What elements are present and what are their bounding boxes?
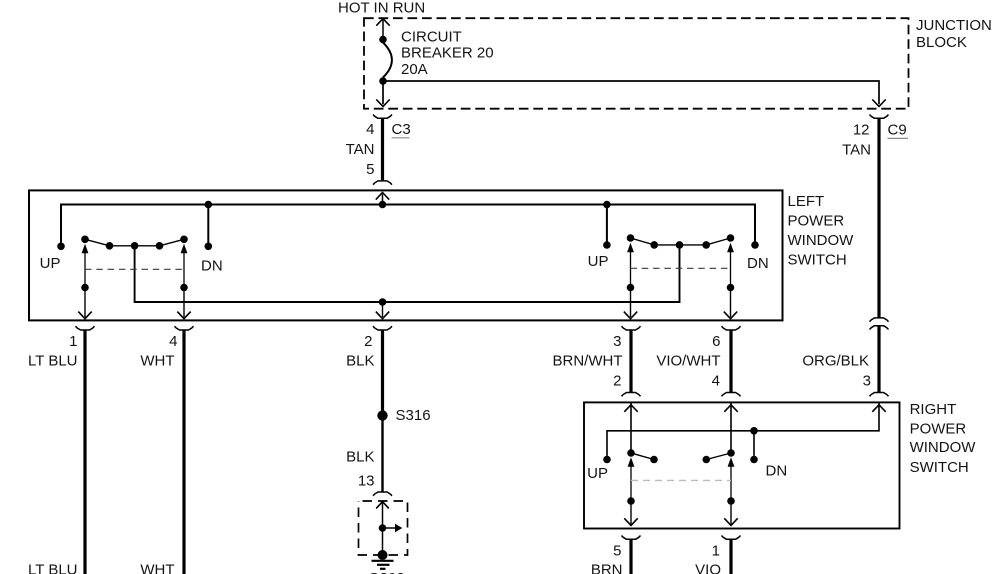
svg-text:4: 4 <box>366 121 374 138</box>
svg-text:5: 5 <box>366 161 374 178</box>
svg-text:HOT IN RUN: HOT IN RUN <box>338 0 425 16</box>
svg-text:BLK: BLK <box>346 449 374 466</box>
svg-text:C3: C3 <box>392 121 411 138</box>
svg-text:POWER: POWER <box>910 421 967 438</box>
svg-text:2: 2 <box>364 333 372 350</box>
svg-text:CIRCUIT: CIRCUIT <box>401 28 462 45</box>
svg-text:LEFT: LEFT <box>788 193 825 210</box>
svg-text:WHT: WHT <box>140 353 174 370</box>
svg-text:4: 4 <box>712 373 720 390</box>
svg-text:SWITCH: SWITCH <box>910 459 969 476</box>
svg-text:3: 3 <box>613 333 621 350</box>
svg-text:UP: UP <box>40 255 61 272</box>
svg-text:1: 1 <box>712 543 720 560</box>
svg-text:13: 13 <box>358 473 375 490</box>
svg-text:UP: UP <box>588 253 609 270</box>
svg-text:DN: DN <box>766 463 788 480</box>
svg-text:2: 2 <box>613 373 621 390</box>
svg-text:VIO/WHT: VIO/WHT <box>656 353 720 370</box>
svg-text:POWER: POWER <box>788 212 845 229</box>
svg-text:WINDOW: WINDOW <box>788 232 855 249</box>
svg-text:6: 6 <box>712 333 720 350</box>
svg-text:LT BLU: LT BLU <box>28 561 77 574</box>
svg-text:BREAKER 20: BREAKER 20 <box>401 45 494 62</box>
svg-text:1: 1 <box>69 333 77 350</box>
svg-text:20A: 20A <box>401 61 428 78</box>
svg-text:5: 5 <box>613 543 621 560</box>
svg-text:WHT: WHT <box>140 561 174 574</box>
svg-text:BRN/WHT: BRN/WHT <box>553 353 623 370</box>
svg-text:TAN: TAN <box>346 141 375 158</box>
svg-text:ORG/BLK: ORG/BLK <box>802 353 869 370</box>
svg-text:12: 12 <box>853 121 870 138</box>
svg-text:DN: DN <box>201 257 223 274</box>
svg-text:3: 3 <box>863 373 871 390</box>
svg-text:BLK: BLK <box>346 353 374 370</box>
svg-text:S316: S316 <box>396 407 431 424</box>
svg-text:TAN: TAN <box>842 142 871 159</box>
svg-text:RIGHT: RIGHT <box>910 401 957 418</box>
svg-text:G302: G302 <box>368 570 405 574</box>
svg-text:SWITCH: SWITCH <box>788 251 847 268</box>
svg-text:WINDOW: WINDOW <box>910 439 977 456</box>
svg-text:4: 4 <box>169 333 177 350</box>
svg-text:C9: C9 <box>888 121 907 138</box>
svg-text:UP: UP <box>587 465 608 482</box>
svg-text:BLOCK: BLOCK <box>916 34 967 51</box>
svg-text:VIO: VIO <box>695 561 721 574</box>
svg-text:LT BLU: LT BLU <box>28 353 77 370</box>
svg-text:JUNCTION: JUNCTION <box>916 17 992 34</box>
svg-text:BRN: BRN <box>591 561 623 574</box>
svg-text:DN: DN <box>747 255 769 272</box>
